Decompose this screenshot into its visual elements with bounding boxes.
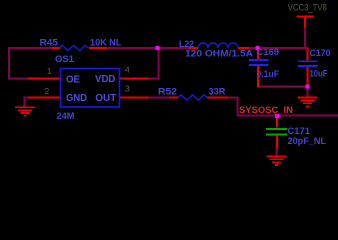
svg-text:10K NL: 10K NL <box>90 38 122 49</box>
svg-text:3: 3 <box>125 84 130 94</box>
svg-text:C170: C170 <box>310 48 331 59</box>
svg-text:SYSOSC_IN: SYSOSC_IN <box>239 105 293 116</box>
svg-text:OE: OE <box>66 75 80 86</box>
svg-text:GND: GND <box>66 93 87 104</box>
svg-text:120 OHM/1.5A: 120 OHM/1.5A <box>185 49 253 60</box>
svg-text:VDD: VDD <box>95 74 115 85</box>
svg-text:33R: 33R <box>209 86 226 97</box>
svg-text:OS1: OS1 <box>55 54 75 65</box>
svg-text:10uF: 10uF <box>310 69 328 80</box>
svg-text:1: 1 <box>47 66 52 76</box>
svg-text:R45: R45 <box>40 37 59 48</box>
svg-text:R52: R52 <box>158 86 177 97</box>
svg-text:OUT: OUT <box>95 93 116 104</box>
svg-text:2: 2 <box>45 86 50 96</box>
svg-text:VCC3_TV8: VCC3_TV8 <box>288 2 327 13</box>
svg-text:C169: C169 <box>257 47 280 58</box>
svg-text:24M: 24M <box>57 111 75 122</box>
svg-text:4: 4 <box>125 65 130 75</box>
svg-text:20pF_NL: 20pF_NL <box>288 136 327 147</box>
svg-text:0.1uF: 0.1uF <box>257 69 280 80</box>
